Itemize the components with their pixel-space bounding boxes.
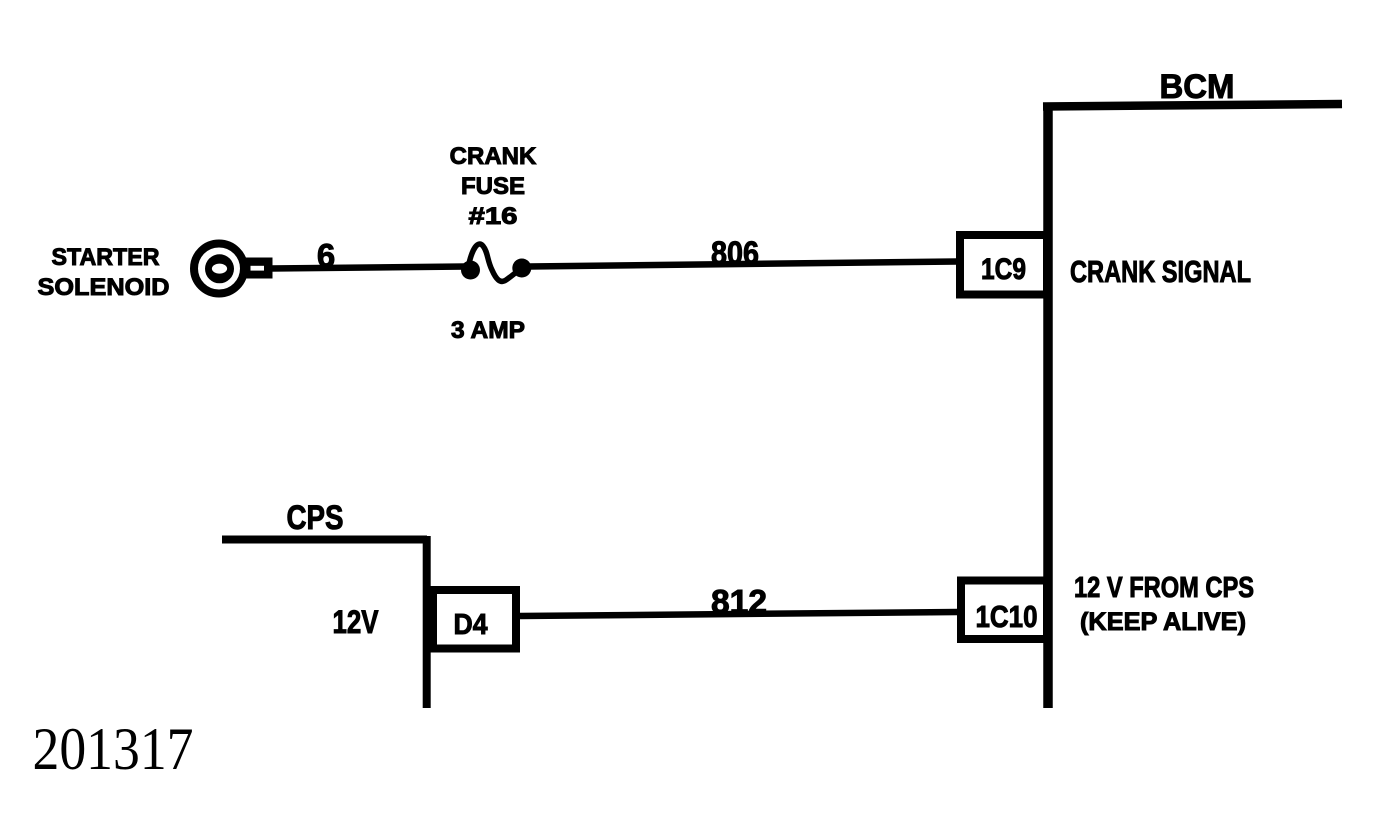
svg-text:CRANK: CRANK — [450, 143, 537, 170]
svg-text:3 AMP: 3 AMP — [451, 317, 525, 344]
BCM module border vertical line — [1043, 103, 1053, 708]
wire 812 (CPS D4 to BCM pin 1C10) — [520, 612, 958, 616]
CPS module border vertical line — [423, 536, 431, 708]
svg-text:FUSE: FUSE — [461, 173, 525, 200]
label 12 V FROM CPS (KEEP ALIVE) — [1074, 572, 1254, 636]
connector pin D4 — [433, 590, 516, 649]
connector pin 1C10 — [961, 581, 1047, 640]
connector pin 1C9 — [960, 235, 1047, 295]
wire 806 (fuse to BCM pin 1C9) — [529, 262, 957, 267]
svg-text:6: 6 — [317, 237, 335, 274]
label STARTER SOLENOID — [38, 244, 170, 301]
svg-text:1C9: 1C9 — [981, 253, 1026, 286]
svg-text:(KEEP ALIVE): (KEEP ALIVE) — [1080, 608, 1246, 636]
svg-text:D4: D4 — [454, 609, 488, 641]
svg-text:201317: 201317 — [33, 716, 194, 782]
svg-text:812: 812 — [711, 583, 767, 620]
svg-text:CPS: CPS — [287, 499, 344, 537]
svg-text:1C10: 1C10 — [976, 599, 1038, 634]
svg-text:CRANK SIGNAL: CRANK SIGNAL — [1070, 254, 1251, 289]
svg-text:#16: #16 — [469, 203, 518, 230]
BCM module border top line — [1043, 104, 1342, 107]
svg-text:STARTER: STARTER — [52, 244, 160, 271]
label CRANK FUSE #16 — [450, 143, 537, 230]
wire 6 (solenoid to fuse) — [270, 267, 466, 269]
svg-text:12V: 12V — [333, 604, 380, 640]
svg-text:BCM: BCM — [1160, 68, 1235, 106]
connector ring terminal (starter solenoid eyelet) — [194, 244, 273, 294]
svg-text:806: 806 — [711, 235, 759, 271]
svg-text:SOLENOID: SOLENOID — [38, 274, 170, 301]
fuse F16 element — [461, 244, 531, 281]
CPS module border top line — [222, 536, 427, 544]
svg-text:12 V FROM CPS: 12 V FROM CPS — [1074, 572, 1254, 604]
